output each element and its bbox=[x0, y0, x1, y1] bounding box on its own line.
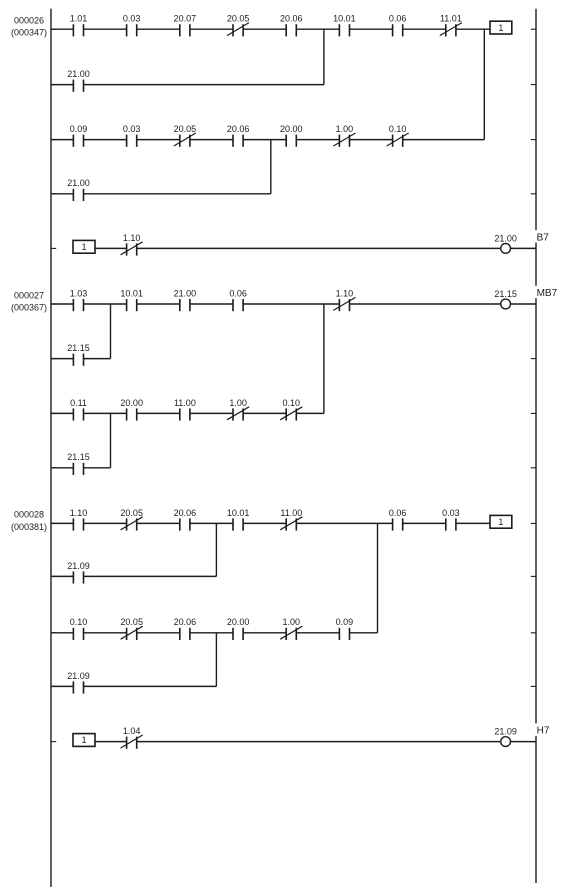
NO contact 21.00 bbox=[174, 288, 197, 311]
NO contact 0.09 bbox=[70, 124, 88, 147]
NO contact 21.15 bbox=[67, 452, 90, 475]
rung label 000027 (000367) bbox=[11, 290, 47, 312]
NC contact 20.05 bbox=[120, 617, 143, 640]
wire rung 000027 main bbox=[51, 303, 501, 305]
net label B7 bbox=[535, 230, 549, 243]
svg-text:20.05: 20.05 bbox=[174, 124, 197, 134]
NO contact 0.11 bbox=[70, 398, 87, 421]
NC contact 1.00 bbox=[227, 398, 249, 421]
wire rung 000028 main bbox=[51, 522, 490, 524]
svg-text:0.03: 0.03 bbox=[442, 508, 460, 518]
svg-text:0.06: 0.06 bbox=[229, 288, 247, 298]
left rail tick r8 bbox=[51, 467, 56, 469]
coil 21.09 bbox=[494, 727, 517, 747]
svg-text:20.06: 20.06 bbox=[174, 508, 197, 518]
svg-text:21.00: 21.00 bbox=[174, 288, 197, 298]
svg-text:(000347): (000347) bbox=[11, 28, 47, 38]
right power rail bbox=[535, 9, 537, 883]
svg-text:MB7: MB7 bbox=[537, 288, 558, 299]
right rail tick r1 bbox=[531, 84, 536, 86]
NC contact 20.05 bbox=[120, 508, 143, 531]
coil 21.15 bbox=[494, 289, 517, 309]
svg-text:20.06: 20.06 bbox=[227, 124, 250, 134]
svg-text:21.09: 21.09 bbox=[494, 727, 517, 737]
svg-text:0.03: 0.03 bbox=[123, 14, 141, 24]
NO contact 20.06 bbox=[227, 124, 250, 147]
jump source box 1 (B7 row) bbox=[73, 240, 95, 253]
NC contact 20.05 bbox=[174, 124, 197, 147]
NC contact 1.10 bbox=[333, 288, 355, 311]
left rail tick r4 bbox=[51, 247, 56, 249]
wire branch 21.09 row2 bbox=[51, 685, 216, 687]
right rail tick r4 bbox=[531, 247, 536, 249]
left rail tick r0 bbox=[51, 28, 56, 30]
jump box 1 bbox=[490, 21, 512, 34]
junction branch 21.00 to rung 000026 bbox=[323, 29, 325, 84]
NO contact 20.06 bbox=[174, 508, 197, 531]
NO contact 0.03 bbox=[442, 508, 460, 531]
NO contact 20.07 bbox=[174, 14, 197, 37]
NO contact 0.06 bbox=[229, 288, 247, 311]
svg-text:0.09: 0.09 bbox=[336, 617, 354, 627]
left rail tick r7 bbox=[51, 412, 56, 414]
svg-text:1.00: 1.00 bbox=[336, 124, 354, 134]
right rail tick r5 bbox=[531, 303, 536, 305]
wire B7 row bbox=[95, 247, 501, 249]
jump box 1 bbox=[490, 515, 512, 528]
svg-text:21.09: 21.09 bbox=[67, 671, 90, 681]
svg-text:20.05: 20.05 bbox=[227, 14, 250, 24]
left rail tick r12 bbox=[51, 685, 56, 687]
wire branch 21.09 row1 bbox=[51, 575, 216, 577]
NO contact 0.03 bbox=[123, 124, 141, 147]
svg-text:11.01: 11.01 bbox=[440, 14, 462, 24]
left rail tick r10 bbox=[51, 575, 56, 577]
junction branch 21.15 to OR row bbox=[110, 413, 112, 467]
svg-text:10.01: 10.01 bbox=[120, 288, 143, 298]
NC contact 1.10 bbox=[121, 233, 143, 256]
svg-text:0.06: 0.06 bbox=[389, 14, 407, 24]
svg-text:20.00: 20.00 bbox=[227, 617, 250, 627]
junction OR-row to rung 000028 bbox=[377, 523, 379, 632]
svg-text:21.00: 21.00 bbox=[494, 233, 517, 243]
svg-text:0.10: 0.10 bbox=[283, 398, 301, 408]
junction branch 21.09 to OR row bbox=[215, 633, 217, 687]
svg-text:10.01: 10.01 bbox=[333, 14, 356, 24]
right rail tick r12 bbox=[531, 685, 536, 687]
junction OR-row to rung 000026 output bbox=[483, 29, 485, 139]
svg-text:0.03: 0.03 bbox=[123, 124, 141, 134]
NO contact 21.15 bbox=[67, 343, 90, 366]
net label H7 bbox=[535, 723, 550, 736]
svg-text:0.10: 0.10 bbox=[70, 617, 88, 627]
svg-text:000027: 000027 bbox=[14, 290, 44, 300]
svg-text:20.05: 20.05 bbox=[120, 508, 143, 518]
NO contact 10.01 bbox=[333, 14, 356, 37]
wire H7 row bbox=[95, 741, 501, 743]
NC contact 11.01 bbox=[440, 14, 462, 37]
jump source box 1 (H7 row) bbox=[73, 734, 95, 747]
wire OR row 0.11 bbox=[51, 412, 324, 414]
wire branch 21.15 row2 bbox=[51, 467, 111, 469]
svg-text:21.00: 21.00 bbox=[67, 178, 90, 188]
svg-text:1: 1 bbox=[498, 23, 503, 33]
svg-text:0.09: 0.09 bbox=[70, 124, 88, 134]
svg-text:0.11: 0.11 bbox=[70, 398, 87, 408]
svg-text:H7: H7 bbox=[537, 726, 550, 737]
rung label 000028 (000381) bbox=[11, 510, 47, 532]
svg-text:1.03: 1.03 bbox=[70, 288, 88, 298]
right rail tick r9 bbox=[531, 522, 536, 524]
svg-text:10.01: 10.01 bbox=[227, 508, 250, 518]
svg-text:20.00: 20.00 bbox=[280, 124, 303, 134]
NO contact 21.00 bbox=[67, 178, 90, 201]
wire branch 21.00 row2 bbox=[51, 193, 271, 195]
svg-text:20.05: 20.05 bbox=[120, 617, 143, 627]
NO contact 0.09 bbox=[336, 617, 354, 640]
svg-text:1.10: 1.10 bbox=[70, 508, 88, 518]
svg-text:1.01: 1.01 bbox=[70, 14, 88, 24]
NC contact 1.00 bbox=[333, 124, 355, 147]
svg-text:(000381): (000381) bbox=[11, 522, 47, 532]
svg-text:0.06: 0.06 bbox=[389, 508, 407, 518]
right rail tick r2 bbox=[531, 139, 536, 141]
right rail tick r13 bbox=[531, 741, 536, 743]
svg-text:21.15: 21.15 bbox=[67, 343, 90, 353]
wire branch 21.15 row1 bbox=[51, 358, 111, 360]
NC contact 0.10 bbox=[387, 124, 409, 147]
NO contact 20.00 bbox=[227, 617, 250, 640]
svg-text:20.06: 20.06 bbox=[280, 14, 303, 24]
NO contact 11.00 bbox=[174, 398, 196, 421]
svg-text:(000367): (000367) bbox=[11, 303, 47, 313]
right rail tick r6 bbox=[531, 358, 536, 360]
NC contact 0.10 bbox=[280, 398, 302, 421]
left rail tick r3 bbox=[51, 193, 56, 195]
wire coil 21.00 to right rail bbox=[511, 247, 537, 249]
NO contact 20.06 bbox=[280, 14, 303, 37]
NO contact 21.09 bbox=[67, 671, 90, 694]
left rail tick r1 bbox=[51, 84, 56, 86]
svg-text:21.15: 21.15 bbox=[494, 289, 517, 299]
svg-text:21.15: 21.15 bbox=[67, 452, 90, 462]
left rail tick r13 bbox=[51, 741, 56, 743]
wire OR row 0.09 bbox=[51, 139, 484, 141]
NC contact 11.00 bbox=[280, 508, 302, 531]
svg-text:1.10: 1.10 bbox=[336, 288, 354, 298]
svg-text:1.04: 1.04 bbox=[123, 726, 141, 736]
wire coil 21.15 to right rail bbox=[511, 303, 537, 305]
rung label 000026 (000347) bbox=[11, 16, 47, 38]
svg-text:20.07: 20.07 bbox=[174, 14, 197, 24]
right rail tick r0 bbox=[531, 28, 536, 30]
left rail tick r5 bbox=[51, 303, 56, 305]
NO contact 20.00 bbox=[120, 398, 143, 421]
svg-text:20.06: 20.06 bbox=[174, 617, 197, 627]
svg-text:20.00: 20.00 bbox=[120, 398, 143, 408]
NO contact 0.10 bbox=[70, 617, 88, 640]
svg-text:1: 1 bbox=[81, 735, 86, 745]
NO contact 0.03 bbox=[123, 14, 141, 37]
right rail tick r10 bbox=[531, 575, 536, 577]
junction OR-row to rung 000027 bbox=[323, 304, 325, 413]
NC contact 20.05 bbox=[227, 14, 250, 37]
junction branch 21.09 to rung 000028 bbox=[215, 523, 217, 576]
right rail tick r11 bbox=[531, 632, 536, 634]
net label MB7 bbox=[535, 286, 558, 299]
junction branch 21.15 to rung 000027 bbox=[110, 304, 112, 359]
svg-text:1: 1 bbox=[498, 517, 503, 527]
svg-text:21.09: 21.09 bbox=[67, 561, 90, 571]
NO contact 20.00 bbox=[280, 124, 303, 147]
svg-text:1: 1 bbox=[81, 242, 86, 252]
wire OR row 0.10 bbox=[51, 632, 378, 634]
left rail tick r6 bbox=[51, 358, 56, 360]
NO contact 20.06 bbox=[174, 617, 197, 640]
svg-text:21.00: 21.00 bbox=[67, 69, 90, 79]
svg-text:000028: 000028 bbox=[14, 510, 44, 520]
NO contact 0.06 bbox=[389, 14, 407, 37]
NO contact 1.01 bbox=[70, 14, 88, 37]
NO contact 1.10 bbox=[70, 508, 88, 531]
svg-text:1.10: 1.10 bbox=[123, 233, 141, 243]
NO contact 10.01 bbox=[120, 288, 143, 311]
left rail tick r11 bbox=[51, 632, 56, 634]
svg-text:000026: 000026 bbox=[14, 16, 44, 26]
right rail tick r3 bbox=[531, 193, 536, 195]
right rail tick r7 bbox=[531, 412, 536, 414]
svg-text:0.10: 0.10 bbox=[389, 124, 407, 134]
left rail tick r9 bbox=[51, 522, 56, 524]
svg-text:B7: B7 bbox=[537, 232, 550, 243]
NO contact 10.01 bbox=[227, 508, 250, 531]
wire branch 21.00 row1 bbox=[51, 84, 324, 86]
NO contact 0.06 bbox=[389, 508, 407, 531]
wire rung 000026 main bbox=[51, 28, 490, 30]
NC contact 1.04 bbox=[121, 726, 143, 749]
NO contact 1.03 bbox=[70, 288, 88, 311]
coil 21.00 bbox=[494, 233, 517, 253]
left power rail bbox=[50, 9, 52, 887]
NO contact 21.09 bbox=[67, 561, 90, 584]
NO contact 21.00 bbox=[67, 69, 90, 92]
wire coil 21.09 to right rail bbox=[511, 741, 537, 743]
junction branch 21.00 to OR row bbox=[270, 140, 272, 194]
NC contact 1.00 bbox=[280, 617, 302, 640]
svg-text:1.00: 1.00 bbox=[229, 398, 247, 408]
svg-text:11.00: 11.00 bbox=[174, 398, 196, 408]
svg-text:1.00: 1.00 bbox=[283, 617, 301, 627]
svg-text:11.00: 11.00 bbox=[280, 508, 302, 518]
left rail tick r2 bbox=[51, 139, 56, 141]
right rail tick r8 bbox=[531, 467, 536, 469]
